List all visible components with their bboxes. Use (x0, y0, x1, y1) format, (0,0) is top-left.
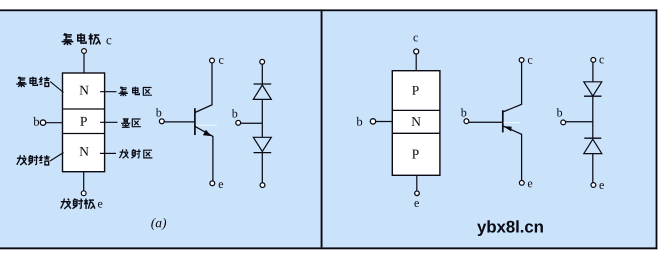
node c terminal Q1 (210, 58, 215, 63)
junction line collector (N/P) (63, 108, 105, 110)
wire collector lead of NPN box (83, 54, 85, 74)
diode D1 (points up, cathode bar on top) (254, 83, 272, 85)
wire emitter Q1 (195, 126, 213, 180)
node e terminal (591, 183, 596, 188)
wire base lead of PNP box (376, 121, 393, 123)
border frame right (656, 9, 658, 249)
panel divider (321, 9, 323, 247)
diode pair equivalent of PNP (557, 58, 604, 189)
node b of diode pair (232, 109, 238, 117)
wire artifact white streak Q1 (196, 124, 217, 126)
wire base of diode pair (566, 121, 593, 123)
node top terminal (260, 59, 265, 64)
wire base lead of NPN box (46, 122, 63, 124)
node e terminal Q1 (210, 181, 215, 186)
wire top (261, 64, 263, 84)
label e of PNP box (414, 201, 418, 207)
junction line emitter (P/N) (63, 133, 105, 135)
wire top (592, 63, 594, 82)
label 集电区 (collector region) with leader wire (100, 87, 152, 97)
wire artifact white streak Q2 (504, 122, 521, 124)
label P bottom region (412, 150, 419, 159)
wire collector lead of PNP box (415, 54, 417, 71)
node b of diode pair (557, 108, 563, 116)
label 基区 (base region) with leader wire (100, 118, 141, 127)
node e terminal Q2 (519, 181, 524, 186)
wire emitter lead of NPN box (83, 172, 85, 191)
node b terminal Q2 (461, 108, 467, 116)
wire emitter Q2 (503, 126, 522, 181)
junction line top (P/N) (392, 109, 440, 111)
arrow emitter Q2 (pointing in, toward base) (503, 126, 511, 131)
wire bottom (592, 154, 594, 183)
label N emitter region (80, 147, 89, 156)
diode D3 (points down, cathode bar below) (584, 82, 602, 96)
label P top region (412, 86, 419, 95)
diode D2 (points down, cathode bar below) (253, 137, 271, 151)
label N collector region (80, 86, 89, 95)
wire bottom (261, 153, 263, 183)
transistor Q1 NPN symbol (156, 58, 224, 188)
node c terminal of PNP box (414, 49, 419, 54)
node bottom terminal (260, 183, 265, 188)
label 发射区 (emitter region) with leader wire (100, 149, 152, 158)
wire base of diode pair (241, 122, 262, 124)
arrow emitter Q1 (pointing out) (203, 130, 212, 136)
node e terminal of NPN box (81, 191, 86, 196)
PNP structure box (392, 71, 440, 176)
junction line bottom (N/P) (392, 132, 440, 134)
label N middle region (412, 117, 421, 126)
node c terminal of NPN box (82, 49, 87, 54)
wire emitter lead of PNP box (416, 175, 418, 191)
label 集电极 c (collector electrode) (62, 33, 112, 45)
node c terminal (591, 58, 596, 63)
node b terminal Q1 (156, 108, 162, 116)
border frame top (0, 9, 657, 11)
label c of PNP box (413, 36, 417, 42)
label 集电结 (collector junction) with leader (16, 77, 63, 93)
wire middle (592, 96, 594, 138)
node e terminal of PNP box (415, 191, 420, 196)
label P base region (80, 117, 87, 126)
label 发射结 (emitter junction) with leader (17, 153, 64, 166)
diode D4 (points up, cathode bar on top) (584, 137, 601, 139)
label (a) (151, 218, 166, 230)
NPN structure box (63, 73, 105, 172)
wire middle (261, 99, 263, 137)
wire collector Q2 (503, 63, 522, 113)
wire collector Q1 (195, 63, 212, 112)
wire base Q1 (164, 121, 195, 123)
base bar Q2 (502, 110, 504, 132)
node c terminal Q2 (519, 58, 524, 63)
node b of PNP box (356, 117, 375, 126)
border frame bottom (0, 247, 657, 249)
base bar Q1 (194, 108, 196, 135)
watermark ybx8l.cn (477, 220, 543, 236)
diode pair equivalent of NPN (232, 59, 271, 187)
transistor Q2 PNP symbol (461, 58, 533, 188)
label 发射极 e (emitter electrode) (61, 199, 103, 210)
wire base Q2 (469, 121, 503, 123)
node b of NPN box (33, 117, 45, 126)
